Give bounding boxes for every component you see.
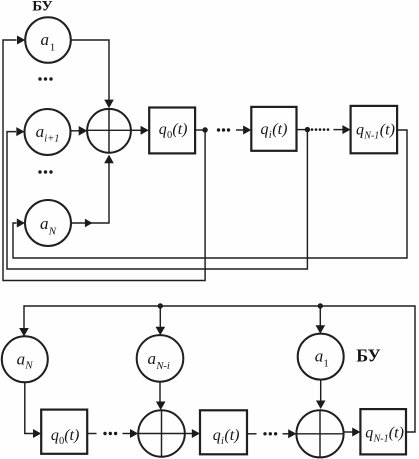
ellipsis between a1 and ai+1 — [38, 77, 52, 80]
svg-text:a: a — [41, 30, 50, 49]
junction dot over aN-i — [158, 303, 163, 308]
wire into qi — [236, 129, 244, 131]
wire a1 to XOR2 — [320, 380, 322, 401]
svg-text:q: q — [159, 121, 167, 138]
multiplier aN (bottom) — [2, 336, 48, 382]
svg-text:N-i: N-i — [155, 361, 170, 372]
XOR adder (top) — [87, 109, 131, 153]
svg-text:q: q — [365, 425, 373, 442]
svg-text:БУ: БУ — [32, 0, 52, 14]
wire XOR to q0 — [131, 129, 142, 131]
wire qi out (bottom) — [247, 433, 257, 435]
register qN-1 (bottom) — [360, 409, 406, 454]
multiplier a1 — [25, 17, 71, 63]
wire XOR2 to qN-1 (bottom) — [344, 431, 353, 433]
multiplier aN-i (bottom) — [137, 335, 184, 382]
wire aN to q0 (bottom) — [25, 382, 34, 433]
XOR adder 1 (bottom) — [138, 410, 185, 457]
svg-text:БУ: БУ — [356, 346, 380, 366]
svg-text:q: q — [261, 121, 269, 138]
svg-text:a: a — [147, 349, 156, 368]
svg-text:(t): (t) — [224, 427, 239, 444]
svg-text:q: q — [51, 427, 59, 444]
svg-text:a: a — [40, 214, 49, 233]
register qi (top) — [251, 107, 296, 151]
drop wire to aN-i — [159, 306, 161, 327]
register qi (bottom) — [200, 410, 247, 454]
ellipsis after q0 junction — [217, 128, 230, 131]
svg-text:(t): (t) — [380, 122, 395, 139]
svg-text:N-1: N-1 — [373, 434, 389, 445]
wire aN-i to XOR1 — [159, 382, 161, 402]
wire ai+1 to XOR (left entry) — [71, 130, 80, 132]
register q0 (top) — [149, 108, 195, 154]
ellipsis between ai+1 and aN — [38, 170, 52, 173]
wire into qN-1 — [334, 129, 344, 131]
svg-text:q: q — [213, 427, 221, 444]
svg-text:N: N — [48, 225, 57, 237]
svg-text:1: 1 — [50, 41, 56, 53]
svg-text:a: a — [315, 347, 324, 366]
dotted wire after qi junction — [311, 128, 330, 131]
wire qi to junction — [297, 129, 308, 131]
svg-text:a: a — [36, 122, 45, 141]
ellipsis before XOR2 — [263, 432, 277, 435]
wire into XOR2 — [283, 433, 289, 435]
wire XOR1 to qi (bottom) — [185, 433, 193, 435]
svg-text:i+1: i+1 — [44, 134, 59, 145]
svg-text:N-1: N-1 — [363, 131, 379, 142]
multiplier aN — [25, 200, 71, 246]
feedback bus (bottom diagram) — [24, 306, 415, 432]
multiplier ai+1 — [25, 109, 71, 155]
wire q0 out (bottom) — [87, 433, 96, 435]
svg-text:(t): (t) — [172, 121, 187, 138]
wire a1 to XOR (top entry) — [71, 40, 109, 100]
svg-text:(t): (t) — [64, 427, 79, 444]
feedback wire qi to ai+1 — [7, 130, 307, 269]
svg-text:a: a — [17, 350, 26, 369]
feedback wire qN-1 to aN — [13, 130, 407, 258]
svg-text:(t): (t) — [389, 425, 404, 442]
svg-text:1: 1 — [323, 358, 329, 370]
multiplier a1 (bottom) — [298, 334, 344, 380]
register q0 (bottom) — [41, 410, 87, 454]
feedback wire q0 to a1 — [3, 40, 205, 281]
wire into XOR1 — [123, 433, 132, 435]
ellipsis before XOR1 — [103, 432, 117, 435]
wire q0 to junction — [195, 129, 205, 131]
svg-text:q: q — [356, 122, 364, 139]
junction dot after q0 — [202, 127, 207, 132]
svg-text:(t): (t) — [272, 121, 287, 138]
XOR adder 2 (bottom) — [296, 410, 343, 457]
junction dot over a1 (bottom) — [318, 303, 323, 308]
wire aN to XOR (bottom entry) — [71, 163, 109, 223]
svg-text:N: N — [24, 360, 33, 372]
drop wire to a1 (bottom) — [319, 306, 321, 326]
junction dot after qi — [305, 127, 310, 132]
mid-wire arrow on aN output — [85, 219, 93, 227]
register qN-1 (top) — [351, 106, 398, 153]
